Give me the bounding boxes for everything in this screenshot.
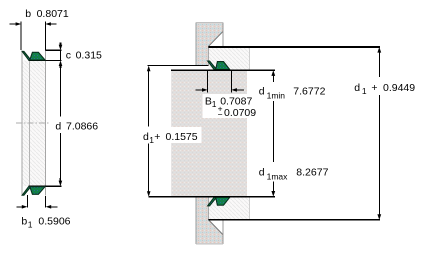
- centerline: [16, 122, 49, 124]
- svg-text:1max: 1max: [267, 172, 289, 182]
- seal body left edge: [21, 50, 23, 195]
- B1 left arrow: [195, 89, 202, 91]
- svg-text:0.1575: 0.1575: [166, 131, 198, 143]
- dimension c : middle line: [60, 50, 62, 60]
- dimension b1 : right arrow: [51, 206, 58, 208]
- bold line seal top: [209, 46, 380, 48]
- green lip trapezoid top: [30, 52, 45, 60]
- housing block: [171, 70, 247, 197]
- svg-text:b: b: [25, 8, 31, 20]
- svg-text:8.2677: 8.2677: [296, 167, 328, 179]
- shaft bar bottom: [196, 197, 223, 244]
- green lip bottom sliver: [208, 197, 217, 206]
- svg-text:0.9449: 0.9449: [383, 82, 415, 94]
- seal body top (hatched): [209, 47, 250, 70]
- bold line seal bottom: [209, 219, 380, 221]
- dimension c : top arrow: [60, 43, 62, 47]
- svg-text:d: d: [55, 121, 61, 133]
- seal body white top zone: [22, 50, 45, 195]
- svg-text:d: d: [259, 167, 265, 179]
- green lip top sliver: [208, 61, 217, 70]
- d1+0.1575 bottom arrow: [147, 191, 151, 197]
- lip base line top: [28, 59, 61, 61]
- block top edge line extended: [171, 69, 275, 71]
- seal body inner line: [28, 60, 30, 186]
- shaft edge line top: [222, 32, 224, 62]
- shaft bar top: [196, 22, 223, 65]
- dimension b : left arrow: [9, 23, 16, 25]
- leader line at bar bottom: [148, 65, 209, 67]
- green lip trapezoid bottom: [30, 187, 45, 195]
- block bottom edge line extended: [149, 196, 275, 198]
- svg-text:d: d: [354, 82, 360, 94]
- svg-text:7.6772: 7.6772: [293, 86, 325, 98]
- d1max bottom arrow: [271, 191, 275, 197]
- dimension b : extension lines: [21, 22, 45, 51]
- green lip bottom trapezoid: [216, 197, 230, 205]
- dimension b : right arrow: [50, 23, 56, 25]
- svg-text:d: d: [143, 131, 149, 143]
- svg-text:0.8071: 0.8071: [37, 8, 69, 20]
- shaft edge line bottom: [222, 205, 224, 235]
- svg-text:1: 1: [28, 220, 33, 230]
- dimension d : vertical line: [59, 66, 61, 182]
- dimension d1min/d1max : vertical line: [272, 74, 274, 193]
- svg-text:0.7087: 0.7087: [220, 95, 252, 107]
- dimension d : bottom reference line: [48, 185, 62, 187]
- dimension d1+0.1575 : vertical line: [148, 70, 150, 192]
- green lip sliver bottom: [22, 187, 31, 196]
- svg-text:0.5906: 0.5906: [38, 216, 70, 228]
- d1+0.1575 top arrow: [147, 66, 151, 72]
- seal body bottom (hatched): [209, 197, 250, 220]
- seal body white bottom zone: [22, 186, 45, 195]
- dimension d : bottom arrow: [59, 178, 61, 181]
- dimension b1 : extension lines: [27, 195, 45, 208]
- dimension b1 : left arrow: [16, 206, 22, 208]
- green lip sliver top: [22, 51, 31, 60]
- svg-text:1: 1: [362, 86, 367, 96]
- dimension c : reference lines: [45, 49, 61, 51]
- svg-text:−: −: [218, 109, 223, 119]
- svg-text:c: c: [66, 50, 71, 62]
- svg-text:1: 1: [212, 99, 217, 109]
- svg-text:d: d: [259, 86, 265, 98]
- green lip top trapezoid: [216, 62, 230, 70]
- d1 bottom arrow: [377, 214, 381, 220]
- lip base line bottom: [28, 185, 61, 187]
- label d1 + 0.9449: [352, 78, 418, 94]
- svg-text:b: b: [21, 216, 27, 228]
- svg-text:+: +: [371, 82, 377, 94]
- svg-text:0.0709: 0.0709: [224, 107, 256, 119]
- label d 7.0866: [54, 118, 103, 132]
- label B1 0.7087 +/- 0.0709: [203, 94, 260, 118]
- d1min top arrow: [271, 70, 275, 76]
- dimension B1 : extension lines: [208, 70, 232, 92]
- d1 top arrow: [377, 47, 381, 53]
- svg-text:+: +: [154, 131, 160, 143]
- svg-text:0.315: 0.315: [76, 50, 102, 62]
- B1 right arrow: [237, 89, 245, 91]
- seal body hatched: [22, 60, 45, 186]
- dimension d1+0.9449 : vertical line: [378, 52, 380, 216]
- svg-text:7.0866: 7.0866: [66, 121, 98, 133]
- seal body right edge: [44, 50, 46, 195]
- svg-text:1min: 1min: [267, 91, 286, 101]
- label d1+ 0.1575: [139, 127, 202, 143]
- dimension c : bottom arrow (shared with d top arrow): [60, 65, 62, 68]
